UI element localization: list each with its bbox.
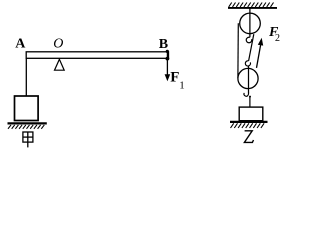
svg-text:A: A [15, 37, 26, 52]
svg-text:F: F [170, 69, 179, 85]
svg-text:O: O [53, 37, 63, 52]
svg-text:B: B [159, 37, 168, 52]
svg-text:2: 2 [275, 33, 280, 44]
svg-text:1: 1 [179, 79, 185, 91]
